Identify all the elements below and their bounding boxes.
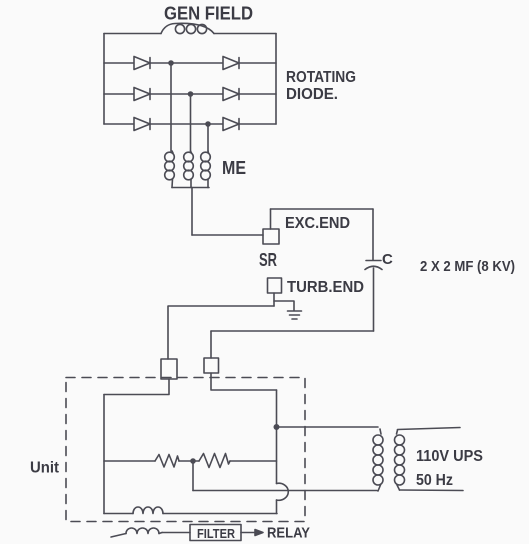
node right rail tap bbox=[274, 425, 278, 429]
wire capacitor top lead bbox=[372, 209, 374, 260]
svg-text:C: C bbox=[382, 251, 393, 268]
ground bbox=[288, 311, 302, 319]
wire ME common bus bbox=[172, 187, 209, 189]
wire left rail bbox=[103, 395, 105, 514]
svg-text:2 X 2 MF (8 KV): 2 X 2 MF (8 KV) bbox=[420, 258, 515, 275]
svg-text:ROTATING: ROTATING bbox=[286, 69, 356, 86]
diode D6 bbox=[223, 118, 239, 131]
wire box1 to left rail bbox=[104, 379, 169, 395]
terminal box 2 bbox=[204, 358, 219, 373]
wire TURB bottom lead bbox=[273, 293, 275, 306]
wire hop over feed line bbox=[277, 483, 289, 500]
transformer T1 right winding bbox=[395, 430, 405, 490]
svg-text:TURB.END: TURB.END bbox=[287, 279, 364, 296]
svg-text:FILTER: FILTER bbox=[197, 527, 235, 541]
wire phase A drop bbox=[170, 63, 172, 151]
inductor ME coil 1 bbox=[165, 151, 175, 188]
diode D4 bbox=[223, 88, 239, 101]
inductor ME coil 3 bbox=[201, 151, 211, 188]
svg-text:Unit: Unit bbox=[30, 460, 59, 477]
wire right edge of diode box bbox=[275, 34, 277, 125]
wire top edge left segment bbox=[104, 33, 161, 35]
unit dashed enclosure bbox=[66, 378, 305, 522]
diode D5 bbox=[134, 118, 150, 131]
wire middle line left bbox=[104, 460, 155, 462]
wire right rail upper bbox=[276, 390, 278, 484]
terminal TURB bbox=[268, 278, 282, 293]
wire turb-end run to terminal 1 bbox=[168, 306, 274, 359]
svg-text:RELAY: RELAY bbox=[267, 525, 310, 542]
wire to SR bbox=[192, 234, 263, 236]
inductor CT secondary bbox=[111, 528, 162, 537]
label ROTATING DIODE bbox=[286, 69, 356, 103]
wire phase C drop bbox=[207, 124, 209, 151]
terminal box 1 bbox=[161, 359, 177, 379]
svg-text:ME: ME bbox=[222, 157, 246, 178]
wire left edge of diode box bbox=[103, 34, 105, 125]
transformer T1 left winding bbox=[373, 429, 383, 491]
wire phase B drop bbox=[190, 94, 192, 151]
wire SR up bbox=[270, 209, 272, 229]
inductor GEN FIELD winding bbox=[161, 23, 214, 33]
capacitor C bbox=[365, 261, 382, 270]
wire capacitor bottom lead bbox=[373, 268, 375, 331]
wire feed line to transformer bbox=[193, 490, 377, 492]
wire CT to filter bbox=[162, 532, 190, 534]
arrowhead bbox=[255, 530, 263, 536]
node resistor tap bbox=[191, 459, 195, 463]
wire bottom rail left bbox=[104, 513, 133, 515]
wire tap to transformer primary top bbox=[277, 426, 379, 428]
svg-text:SR: SR bbox=[259, 250, 277, 270]
inductor CT primary bumps bbox=[133, 507, 163, 514]
wire filter to relay arrow bbox=[241, 532, 255, 534]
svg-text:GEN FIELD: GEN FIELD bbox=[164, 4, 253, 24]
terminal SR bbox=[263, 229, 279, 244]
node phase B bbox=[189, 92, 193, 96]
wire tap drop bbox=[192, 461, 194, 491]
wire phase row 1 bbox=[104, 62, 276, 64]
diode D2 bbox=[223, 57, 239, 70]
wire terminal-2 drop bbox=[210, 331, 212, 358]
wire ME output drop bbox=[191, 188, 193, 236]
wire phase row 3 (box bottom) bbox=[104, 123, 276, 125]
wire box2 to right rail bbox=[211, 373, 277, 390]
diode D1 bbox=[134, 57, 150, 70]
wire middle line right bbox=[230, 460, 277, 462]
wire secondary bottom lead bbox=[400, 489, 464, 492]
node phase C bbox=[206, 122, 210, 126]
resistor R2 bbox=[199, 454, 230, 468]
wire exciter-end top run bbox=[271, 208, 374, 210]
svg-text:EXC.END: EXC.END bbox=[285, 215, 350, 232]
wire top edge right segment bbox=[214, 33, 276, 35]
wire ground branch bbox=[274, 301, 294, 311]
resistor R1 bbox=[155, 455, 179, 468]
svg-text:110V UPS: 110V UPS bbox=[416, 448, 483, 465]
wire bottom run to terminal 2 bbox=[211, 330, 374, 332]
diode D3 bbox=[134, 88, 150, 101]
node phase A bbox=[169, 61, 173, 65]
wire bottom rail right bbox=[163, 513, 277, 515]
wire between resistors bbox=[179, 460, 199, 462]
wire right rail lower bbox=[276, 500, 278, 514]
filter box bbox=[190, 525, 241, 541]
svg-text:50 Hz: 50 Hz bbox=[416, 472, 453, 489]
wire phase row 2 bbox=[104, 93, 276, 95]
svg-text:DIODE.: DIODE. bbox=[286, 86, 338, 103]
inductor ME coil 2 bbox=[184, 151, 194, 188]
wire secondary top lead bbox=[398, 428, 461, 430]
